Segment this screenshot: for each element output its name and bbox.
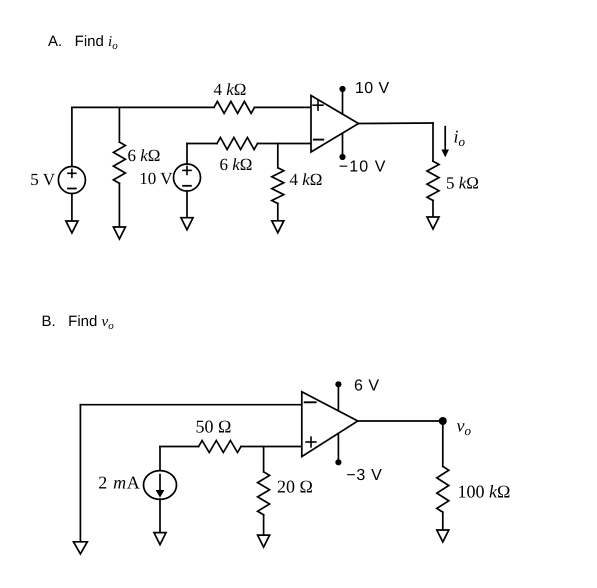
voltage source V1 5V: [58, 167, 85, 194]
current source I1 2mA: [144, 471, 177, 500]
wire: U1 output net: [359, 123, 434, 161]
wire: U2 negative supply: [337, 433, 339, 462]
wire: R5 to ground: [432, 201, 434, 218]
title A: [48, 33, 118, 52]
op-amp U2: [302, 392, 358, 457]
label 4 kOhm (R3): [290, 170, 323, 189]
resistor R8 100k vertical: [437, 466, 449, 512]
svg-text:5 kΩ: 5 kΩ: [446, 174, 479, 193]
label 6 V supply: [354, 377, 380, 394]
resistor R6 50 Ohm horizontal: [199, 441, 241, 453]
resistor R7 20 Ohm vertical: [258, 472, 270, 515]
ground left leg: [74, 542, 88, 554]
wire: noninverting net of U2: [160, 447, 302, 471]
wire: 5V source branch: [71, 107, 73, 221]
ground under R5: [427, 217, 439, 229]
svg-text:100 kΩ: 100 kΩ: [458, 482, 511, 502]
node: -10V supply dot: [339, 154, 345, 160]
svg-text:6 V: 6 V: [354, 377, 380, 394]
label 6 kOhm (R2): [220, 155, 253, 174]
svg-text:4 kΩ: 4 kΩ: [290, 170, 323, 189]
svg-text:A. Find io: A. Find io: [48, 33, 118, 52]
label 10 V supply: [355, 80, 390, 97]
wire: 4k grounding branch: [277, 144, 279, 221]
ground under R1: [113, 227, 125, 239]
label 6 kOhm (R1): [128, 146, 161, 165]
svg-text:2 mA: 2 mA: [98, 473, 140, 493]
svg-text:6 kΩ: 6 kΩ: [220, 155, 253, 174]
node: 6V supply dot: [335, 381, 341, 387]
wire: U1 positive supply: [342, 89, 344, 114]
resistor R4 4k feedback horizontal: [214, 101, 255, 113]
label 100 kOhm (R8): [458, 482, 511, 502]
resistor R2 6k horizontal: [217, 138, 258, 150]
svg-text:4 kΩ: 4 kΩ: [214, 80, 247, 99]
ground under V1: [66, 221, 78, 233]
label 10 V (V2): [139, 169, 173, 188]
svg-text:20 Ω: 20 Ω: [277, 477, 313, 497]
node: -3V supply dot: [335, 459, 341, 465]
svg-text:6 kΩ: 6 kΩ: [128, 146, 161, 165]
ground under V2: [181, 218, 193, 230]
resistor R3 4k vertical: [272, 168, 284, 204]
label 4 kOhm (R4): [214, 80, 247, 99]
svg-text:10 V: 10 V: [355, 80, 390, 97]
wire: 20 Ohm branch: [263, 447, 265, 536]
node: +10V supply dot: [339, 86, 345, 92]
label 2 mA: [98, 473, 140, 493]
label 50 Ohm (R6): [196, 417, 232, 437]
wire: 6k resistor branch: [118, 107, 120, 227]
svg-text:io: io: [454, 127, 466, 150]
svg-text:vo: vo: [457, 416, 472, 439]
node: v_o output dot: [439, 417, 447, 425]
svg-text:B. Find vo: B. Find vo: [42, 313, 115, 332]
voltage source V2 10V: [174, 164, 201, 191]
wire: R8 to ground: [442, 512, 444, 530]
current arrow i_o: [441, 127, 449, 158]
svg-text:−3 V: −3 V: [346, 467, 382, 484]
wire: top net from 5V to op-amp U1 noninverting input: [72, 106, 311, 108]
svg-text:5 V: 5 V: [30, 170, 55, 189]
wire: U1 negative supply: [342, 133, 344, 157]
svg-text:10 V: 10 V: [139, 169, 173, 188]
wire: inverting input net: [187, 143, 311, 145]
svg-text:−10 V: −10 V: [339, 158, 387, 175]
wire: 10V source up to inverting net: [186, 144, 188, 218]
label 5 kOhm (R5): [446, 174, 479, 193]
ground under R8: [437, 530, 449, 542]
resistor R5 5k vertical: [427, 161, 439, 200]
label -10 V supply: [339, 158, 387, 175]
svg-text:50 Ω: 50 Ω: [196, 417, 232, 437]
label 5 V: [30, 170, 55, 189]
op-amp U1: [311, 96, 359, 153]
label 20 Ohm (R7): [277, 477, 313, 497]
ground under R3: [272, 221, 284, 233]
resistor R1 6k vertical: [113, 142, 125, 183]
label i_o: [454, 127, 466, 150]
wire: inverting net (top) of U2: [80, 405, 301, 542]
label v_o: [457, 416, 472, 439]
wire: I1 to ground: [159, 499, 161, 533]
ground under I1: [154, 533, 166, 545]
label -3 V supply: [346, 467, 382, 484]
ground under R7: [258, 535, 270, 547]
wire: U2 output net: [358, 421, 443, 466]
title B: [42, 313, 115, 332]
wire: U2 positive supply: [337, 384, 339, 411]
